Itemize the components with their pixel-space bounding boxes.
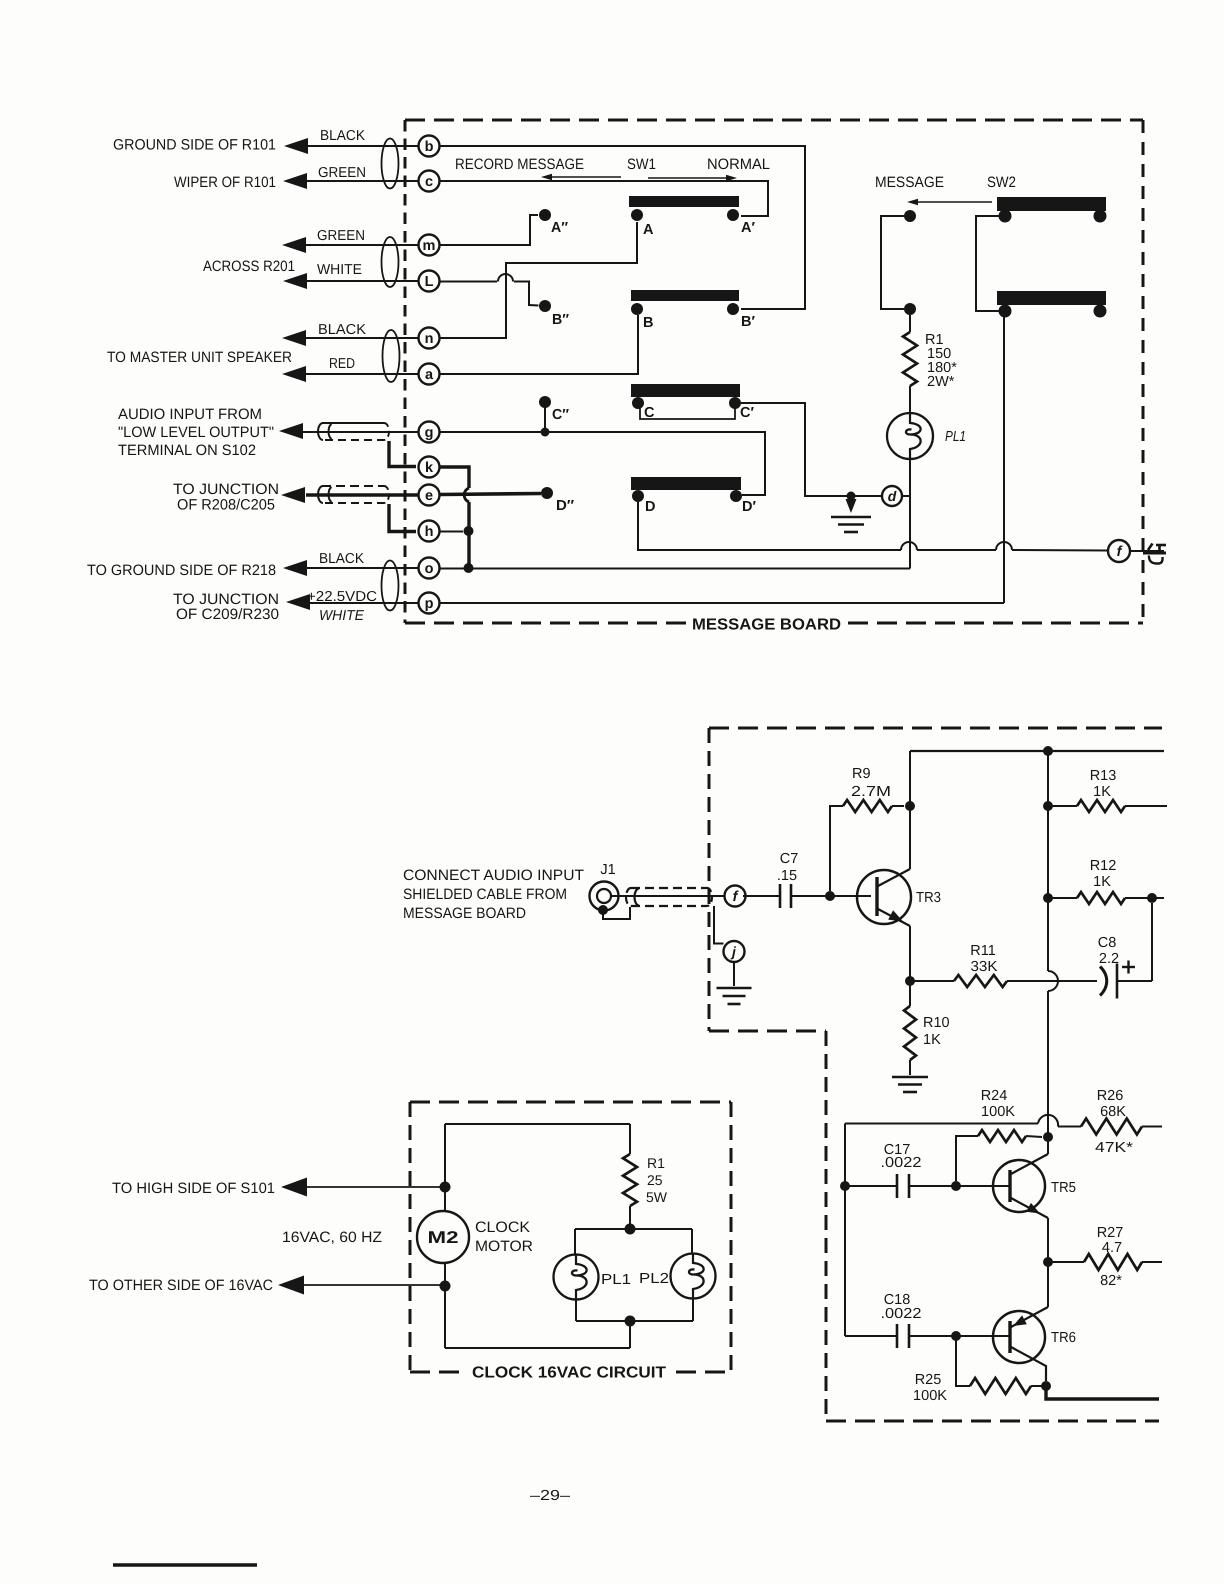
svg-text:RECORD MESSAGE: RECORD MESSAGE: [455, 156, 584, 173]
svg-text:A′: A′: [741, 220, 755, 236]
svg-text:1K: 1K: [1093, 784, 1111, 800]
svg-text:TO JUNCTION: TO JUNCTION: [173, 481, 279, 498]
svg-text:100K: 100K: [981, 1104, 1015, 1120]
svg-text:D: D: [645, 499, 655, 515]
svg-text:MOTOR: MOTOR: [475, 1238, 533, 1255]
svg-text:MESSAGE BOARD: MESSAGE BOARD: [692, 617, 841, 634]
svg-text:B: B: [643, 315, 653, 331]
svg-text:R25: R25: [915, 1372, 942, 1388]
svg-text:4.7: 4.7: [1102, 1240, 1122, 1256]
svg-text:n: n: [425, 331, 434, 347]
svg-text:PL2: PL2: [639, 1271, 669, 1287]
svg-text:TO MASTER UNIT SPEAKER: TO MASTER UNIT SPEAKER: [107, 349, 292, 366]
svg-text:"LOW LEVEL OUTPUT": "LOW LEVEL OUTPUT": [118, 424, 274, 441]
svg-text:k: k: [425, 460, 434, 476]
svg-text:NORMAL: NORMAL: [707, 156, 770, 173]
svg-text:RED: RED: [329, 356, 355, 372]
svg-text:L: L: [425, 274, 434, 290]
svg-text:WHITE: WHITE: [319, 608, 364, 624]
svg-text:MESSAGE BOARD: MESSAGE BOARD: [403, 905, 526, 922]
svg-text:OF R208/C205: OF R208/C205: [177, 497, 275, 514]
svg-text:h: h: [425, 524, 434, 540]
svg-text:WHITE: WHITE: [317, 262, 362, 278]
svg-text:BLACK: BLACK: [319, 551, 364, 567]
svg-text:C7: C7: [780, 851, 799, 867]
svg-text:J1: J1: [600, 862, 615, 878]
svg-text:R11: R11: [970, 943, 996, 959]
svg-text:C′: C′: [740, 405, 754, 421]
svg-text:o: o: [425, 561, 434, 577]
svg-text:a: a: [425, 367, 434, 383]
svg-text:R1: R1: [647, 1155, 665, 1171]
svg-text:b: b: [425, 139, 434, 155]
svg-text:–29–: –29–: [530, 1488, 571, 1504]
svg-text:33K: 33K: [971, 959, 998, 975]
svg-text:B′: B′: [741, 314, 755, 330]
svg-text:SW2: SW2: [987, 174, 1016, 191]
svg-text:MESSAGE: MESSAGE: [875, 174, 944, 191]
svg-text:BLACK: BLACK: [320, 128, 365, 144]
svg-text:e: e: [425, 488, 433, 504]
svg-text:CONNECT AUDIO INPUT: CONNECT AUDIO INPUT: [403, 867, 584, 884]
svg-text:SHIELDED CABLE FROM: SHIELDED CABLE FROM: [403, 886, 567, 903]
svg-text:TO OTHER SIDE OF 16VAC: TO OTHER SIDE OF 16VAC: [89, 1277, 273, 1294]
svg-text:g: g: [425, 425, 434, 441]
svg-text:CLOCK: CLOCK: [475, 1219, 530, 1236]
svg-text:TO GROUND SIDE OF R218: TO GROUND SIDE OF R218: [87, 562, 276, 579]
svg-text:BLACK: BLACK: [318, 322, 366, 338]
svg-text:2.2: 2.2: [1099, 951, 1119, 967]
svg-text:R27: R27: [1097, 1225, 1124, 1241]
svg-text:D″: D″: [556, 498, 574, 514]
svg-text:GREEN: GREEN: [318, 165, 366, 181]
svg-text:TR3: TR3: [916, 890, 941, 906]
svg-text:TR5: TR5: [1051, 1180, 1076, 1196]
svg-text:SW1: SW1: [627, 156, 656, 173]
svg-text:R13: R13: [1090, 768, 1117, 784]
svg-text:100K: 100K: [913, 1388, 947, 1404]
svg-text:GROUND SIDE OF R101: GROUND SIDE OF R101: [113, 137, 276, 154]
svg-text:C8: C8: [1098, 935, 1117, 951]
svg-text:47K*: 47K*: [1095, 1140, 1133, 1156]
svg-text:.0022: .0022: [881, 1155, 922, 1171]
svg-text:TO HIGH SIDE OF S101: TO HIGH SIDE OF S101: [112, 1180, 275, 1197]
svg-text:C″: C″: [552, 407, 569, 423]
svg-text:PL1: PL1: [601, 1272, 631, 1288]
svg-text:B″: B″: [552, 312, 569, 328]
svg-text:25: 25: [647, 1172, 663, 1188]
svg-text:R26: R26: [1097, 1088, 1124, 1104]
svg-text:1K: 1K: [923, 1032, 941, 1048]
svg-text:AUDIO INPUT FROM: AUDIO INPUT FROM: [118, 406, 262, 423]
svg-text:PL1: PL1: [945, 429, 966, 445]
svg-text:R9: R9: [852, 766, 871, 782]
svg-text:GREEN: GREEN: [317, 228, 365, 244]
svg-text:p: p: [425, 596, 434, 612]
svg-text:TERMINAL ON S102: TERMINAL ON S102: [118, 442, 256, 459]
svg-text:.0022: .0022: [881, 1306, 922, 1322]
svg-text:c: c: [425, 174, 433, 190]
svg-text:M2: M2: [428, 1228, 459, 1247]
svg-text:1K: 1K: [1093, 874, 1111, 890]
svg-text:82*: 82*: [1100, 1273, 1122, 1289]
svg-text:5W: 5W: [646, 1189, 668, 1205]
svg-text:.15: .15: [777, 868, 797, 884]
svg-text:ACROSS R201: ACROSS R201: [203, 258, 295, 275]
svg-text:R10: R10: [923, 1015, 950, 1031]
svg-text:TR6: TR6: [1051, 1330, 1076, 1346]
svg-text:CLOCK 16VAC CIRCUIT: CLOCK 16VAC CIRCUIT: [472, 1365, 666, 1382]
svg-text:A″: A″: [551, 220, 568, 236]
svg-text:m: m: [423, 238, 436, 254]
svg-text:A: A: [643, 222, 654, 238]
svg-text:16VAC, 60 HZ: 16VAC, 60 HZ: [282, 1229, 382, 1246]
svg-text:D′: D′: [742, 499, 756, 515]
svg-text:R12: R12: [1090, 858, 1117, 874]
svg-text:R24: R24: [981, 1088, 1008, 1104]
svg-text:2.7M: 2.7M: [851, 784, 891, 800]
svg-text:68K: 68K: [1100, 1104, 1126, 1120]
svg-text:OF C209/R230: OF C209/R230: [176, 606, 279, 623]
svg-text:2W*: 2W*: [927, 374, 955, 390]
svg-text:WIPER OF R101: WIPER OF R101: [174, 174, 276, 191]
svg-text:d: d: [888, 488, 897, 504]
